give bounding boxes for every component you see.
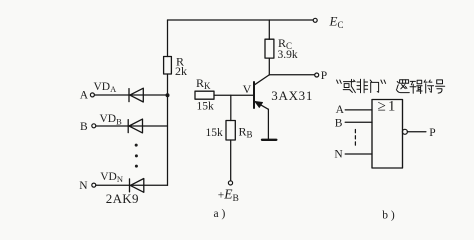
char huo bbox=[343, 79, 355, 92]
diode VDB bbox=[128, 119, 142, 133]
svg-text:P: P bbox=[321, 70, 327, 82]
wire gate output bbox=[407, 131, 426, 133]
dashed more-inputs line bbox=[354, 130, 356, 149]
wire input A bbox=[94, 94, 167, 96]
gate box U1 bbox=[372, 100, 403, 169]
wire R top bbox=[167, 20, 169, 57]
negation bubble bbox=[402, 129, 407, 134]
svg-text:+EB: +EB bbox=[218, 187, 239, 204]
svg-text:VDB: VDB bbox=[100, 113, 123, 126]
wire gate input N bbox=[345, 153, 372, 155]
diode VDA bbox=[129, 88, 143, 102]
wire RB drop bbox=[230, 95, 232, 120]
wire common vertical bbox=[167, 95, 169, 185]
svg-text:B: B bbox=[80, 121, 88, 133]
terminal EB bbox=[228, 181, 232, 185]
svg-text:2AK9: 2AK9 bbox=[106, 191, 139, 206]
svg-text:N: N bbox=[79, 180, 88, 192]
svg-text:VDN: VDN bbox=[100, 171, 123, 184]
quote close bbox=[381, 80, 386, 83]
svg-text:V: V bbox=[243, 82, 252, 96]
svg-text:2k: 2k bbox=[175, 64, 187, 78]
transistor Q1 collector bbox=[255, 75, 270, 85]
diode VDN bbox=[130, 179, 144, 193]
svg-text:3.9k: 3.9k bbox=[278, 49, 298, 61]
ground bbox=[262, 139, 276, 141]
svg-text:RB: RB bbox=[239, 125, 253, 140]
wire top bus bbox=[168, 19, 314, 21]
wire to P bbox=[269, 74, 314, 76]
svg-text:A: A bbox=[336, 104, 345, 116]
transistor Q1 base bar bbox=[253, 82, 255, 108]
title NOR-gate logic symbol (hand-drawn CJK) bbox=[337, 79, 445, 93]
svg-text:3AX31: 3AX31 bbox=[271, 88, 313, 103]
wire input B bbox=[96, 125, 168, 127]
svg-text:B: B bbox=[335, 117, 343, 129]
svg-text:EC: EC bbox=[329, 14, 344, 31]
wire gate input A bbox=[345, 109, 372, 111]
char fei bbox=[357, 79, 368, 92]
ellipsis dots bbox=[135, 144, 138, 168]
junction dot node K bbox=[166, 93, 170, 97]
resistor RK bbox=[195, 91, 214, 99]
svg-text:15k: 15k bbox=[197, 101, 215, 113]
wire emitter down bbox=[267, 109, 269, 139]
terminal B bbox=[92, 124, 96, 128]
transistor Q1 emitter arrow bbox=[255, 101, 263, 107]
resistor RB bbox=[226, 121, 235, 141]
svg-text:A: A bbox=[80, 90, 89, 102]
svg-text:a ): a ) bbox=[214, 208, 226, 220]
wire RC top bbox=[268, 20, 270, 39]
svg-text:RK: RK bbox=[196, 76, 211, 91]
char luo bbox=[400, 80, 409, 84]
char ji bbox=[410, 81, 416, 93]
resistor RC bbox=[265, 39, 274, 58]
svg-text:≥1: ≥1 bbox=[378, 99, 398, 115]
wire R bottom bbox=[167, 74, 169, 95]
svg-text:VDA: VDA bbox=[94, 81, 118, 94]
terminal P bbox=[315, 73, 319, 77]
terminal EC bbox=[313, 18, 317, 22]
svg-text:15k: 15k bbox=[206, 127, 224, 139]
wire RC bottom bbox=[268, 58, 270, 75]
svg-text:b ): b ) bbox=[382, 209, 395, 221]
terminal A bbox=[90, 93, 94, 97]
wire input N bbox=[96, 184, 168, 186]
char fu bbox=[424, 80, 434, 93]
resistor R bbox=[164, 57, 172, 75]
char men bbox=[370, 80, 378, 93]
svg-text:P: P bbox=[429, 127, 435, 139]
wire RK to base bbox=[214, 94, 254, 96]
transistor Q1 emitter bbox=[255, 101, 269, 109]
char hao bbox=[437, 80, 443, 84]
terminal N bbox=[92, 183, 96, 187]
quote open bbox=[337, 80, 342, 83]
svg-text:N: N bbox=[334, 149, 343, 161]
wire RB to EB bbox=[230, 140, 232, 181]
wire gate input B bbox=[345, 121, 372, 123]
